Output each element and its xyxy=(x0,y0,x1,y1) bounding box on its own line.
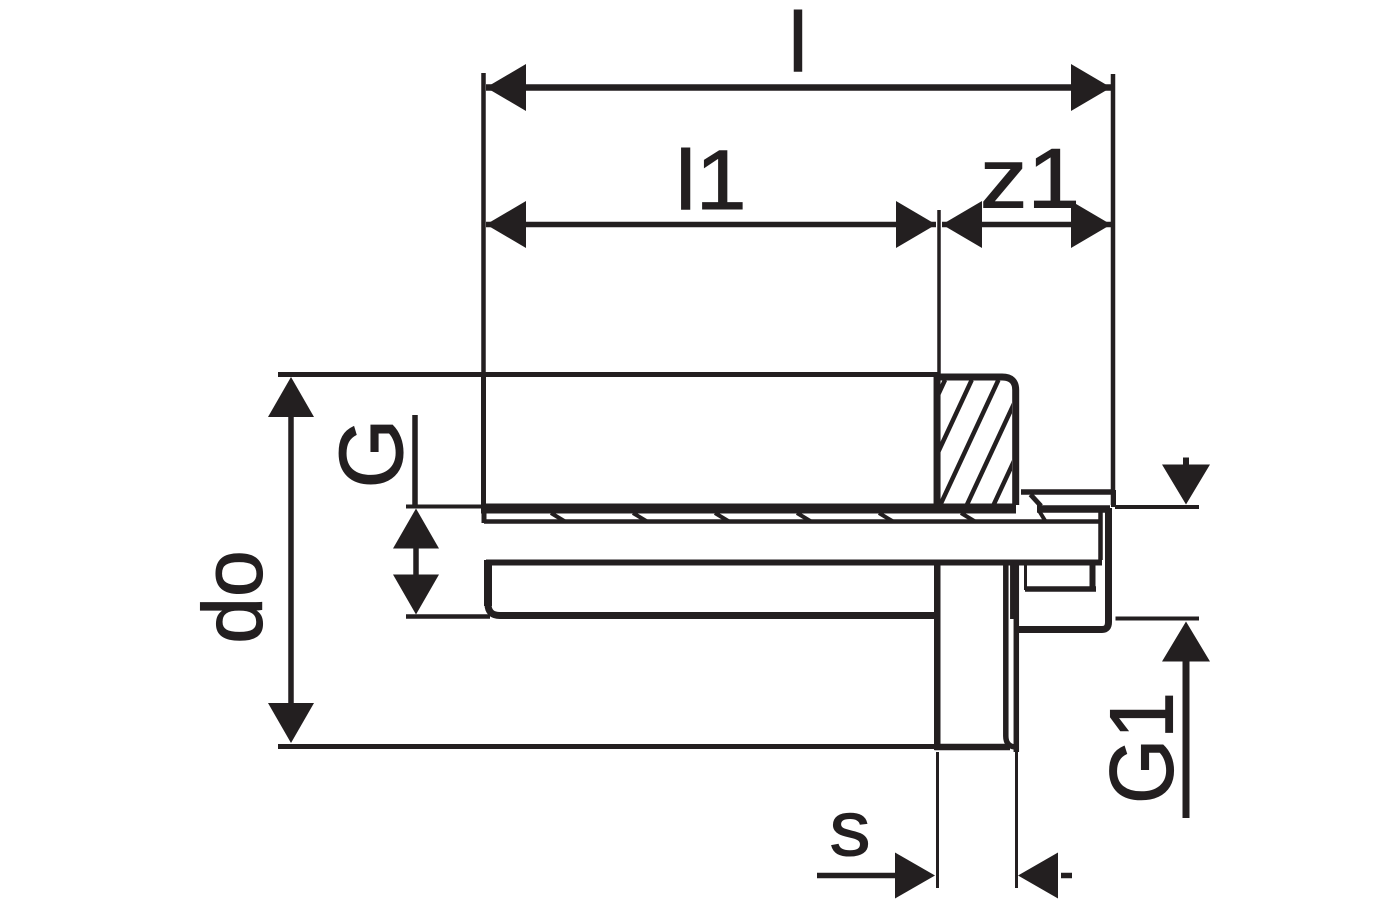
svg-text:l: l xyxy=(789,0,808,89)
svg-text:G: G xyxy=(322,418,422,488)
svg-text:do: do xyxy=(186,550,280,643)
svg-text:G1: G1 xyxy=(1093,692,1193,804)
svg-text:z1: z1 xyxy=(980,132,1080,226)
svg-text:s: s xyxy=(830,784,871,872)
svg-text:l1: l1 xyxy=(676,133,747,227)
